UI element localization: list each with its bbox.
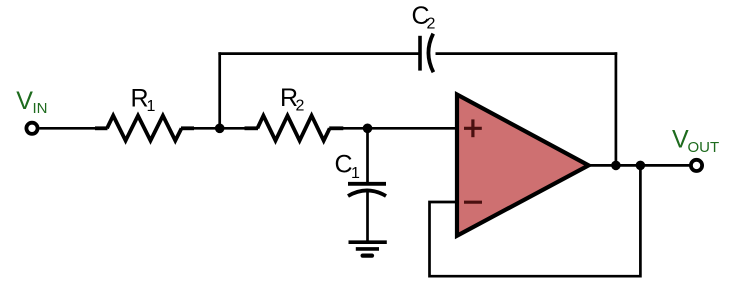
svg-text:2: 2 [296, 98, 305, 115]
svg-text:1: 1 [351, 165, 360, 182]
svg-text:2: 2 [427, 16, 436, 33]
resistor R1 [95, 116, 194, 141]
capacitor C2 right curved plate [428, 34, 433, 73]
wire node A up to top rail [218, 52, 221, 129]
wire top rail right segment from C2 [436, 52, 618, 55]
node output junction dot 1 [611, 161, 621, 171]
capacitor C1 top plate [348, 182, 386, 186]
op-amp U1 pin - [464, 201, 482, 204]
capacitor C2 left plate [418, 36, 422, 71]
ground [349, 242, 387, 255]
svg-text:OUT: OUT [688, 139, 720, 156]
svg-text:V: V [16, 87, 33, 115]
svg-text:1: 1 [147, 98, 156, 115]
svg-text:IN: IN [33, 100, 48, 117]
wire feedback to - input [430, 165, 641, 276]
svg-text:V: V [672, 126, 689, 154]
op-amp U1 pin + [464, 119, 482, 137]
node B junction dot [363, 124, 373, 134]
capacitor C1 bottom curved plate [348, 190, 386, 196]
wire op-amp output to VOUT [588, 164, 690, 167]
wire input to R1 [40, 127, 108, 130]
node VIN terminal [26, 123, 37, 134]
node VOUT terminal [691, 160, 702, 171]
wire C1 to ground [366, 190, 369, 242]
op-amp U1 [457, 95, 589, 236]
node output junction dot 2 [636, 161, 646, 171]
resistor R2 [245, 116, 344, 141]
wire R1 to node A [183, 127, 258, 130]
wire R2 to op-amp + input [334, 127, 456, 130]
wire node B down to C1 [366, 128, 369, 182]
wire down from top rail to output node [615, 52, 618, 165]
node A junction dot [215, 124, 225, 134]
wire top rail left segment to C2 [218, 52, 420, 55]
svg-text:C: C [335, 151, 353, 179]
